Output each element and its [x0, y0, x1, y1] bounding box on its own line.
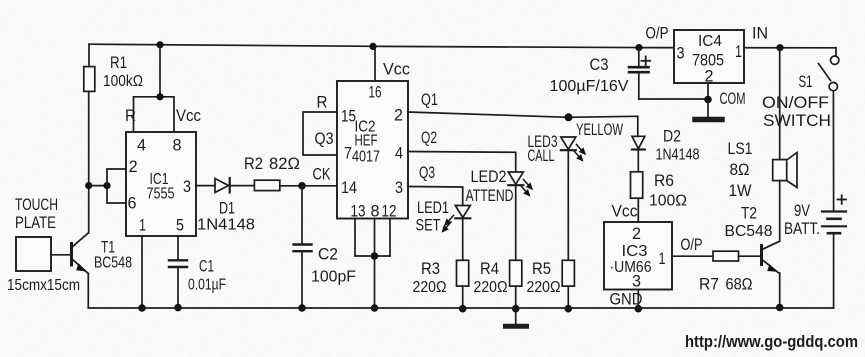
svg-text:R: R: [317, 93, 328, 112]
svg-text:R7: R7: [699, 275, 719, 294]
svg-text:ON/OFF: ON/OFF: [762, 93, 829, 112]
wire IC1 pin3 to D1: [196, 185, 215, 187]
resistor R3 220ohm: [413, 259, 469, 296]
wire top supply rail: [89, 44, 836, 48]
svg-text:100kΩ: 100kΩ: [103, 73, 143, 90]
svg-text:HEF: HEF: [355, 133, 378, 150]
svg-text:2: 2: [129, 157, 138, 176]
svg-text:D2: D2: [663, 127, 681, 146]
node dot T2 emitter ground: [776, 304, 784, 312]
capacitor C2: [294, 186, 357, 308]
svg-text:3: 3: [395, 178, 403, 197]
svg-text:1: 1: [735, 42, 742, 61]
wire IC1 pins 4-8 bracket: [134, 97, 175, 132]
svg-text:SET: SET: [416, 216, 441, 235]
svg-text:TOUCH: TOUCH: [15, 195, 58, 214]
svg-text:3: 3: [677, 44, 685, 63]
wire LED2 to R4: [515, 185, 517, 260]
svg-text:220Ω: 220Ω: [413, 279, 447, 296]
svg-text:1N4148: 1N4148: [197, 217, 255, 234]
svg-text:YELLOW: YELLOW: [576, 120, 623, 139]
svg-text:0.01µF: 0.01µF: [188, 277, 226, 294]
svg-text:220Ω: 220Ω: [527, 279, 561, 296]
wire IC1 pins 2-6 bracket: [107, 169, 126, 203]
svg-text:12: 12: [382, 202, 397, 221]
svg-text:2: 2: [394, 106, 403, 125]
svg-text:R1: R1: [110, 53, 127, 72]
wire T2 emitter to ground rail: [779, 273, 781, 308]
LED3 CALL: [528, 120, 624, 165]
capacitor C1: [169, 257, 226, 309]
speaker LS1: [728, 139, 798, 200]
wire R4 to ground rail: [515, 286, 517, 309]
wire R7 to T2 base: [739, 255, 761, 257]
svg-text:IC4: IC4: [698, 33, 722, 50]
svg-text:15cmx15cm: 15cmx15cm: [7, 277, 80, 294]
node junction dot IN / speaker branch: [776, 44, 783, 51]
svg-text:R2: R2: [244, 154, 263, 173]
svg-text:R4: R4: [480, 259, 499, 278]
node dot R3 ground: [459, 305, 467, 313]
svg-text:·UM66: ·UM66: [610, 259, 652, 276]
wire Vcc drop to IC1 pins 4-8 bracket: [159, 45, 161, 97]
wire R1 bottom to T1 collector: [88, 91, 90, 233]
op-amp U1 timer IC1 7555 box: [125, 106, 201, 236]
svg-text:LS1: LS1: [728, 139, 753, 158]
wire collector node to IC1 pin2/6 bracket: [89, 185, 107, 187]
svg-text:Q3: Q3: [419, 163, 435, 182]
svg-text:4: 4: [395, 144, 403, 163]
svg-text:Q3: Q3: [315, 129, 334, 148]
wire R6 to IC3 pin2: [637, 198, 639, 222]
svg-text:68Ω: 68Ω: [726, 275, 753, 294]
svg-text:4: 4: [137, 136, 146, 155]
wire touch plate to T1 base: [51, 254, 71, 256]
wire Q3 output: [408, 163, 463, 205]
node junction dot IC2 Vcc branch: [369, 43, 376, 50]
svg-text:13: 13: [351, 202, 366, 221]
node junction dot C3 branch: [635, 44, 642, 51]
wire speaker to T2 collector: [779, 181, 781, 242]
node junction dot top of R1 branch: [156, 41, 163, 48]
wire D2 to R6: [637, 150, 639, 172]
node dot pin8 join: [371, 252, 379, 260]
diode D2 1N4148: [632, 127, 700, 164]
wire IN node down to speaker: [779, 48, 781, 160]
svg-text:9V: 9V: [794, 201, 811, 220]
svg-text:1: 1: [659, 249, 666, 268]
wire IC1 pin5 to C1: [177, 236, 179, 260]
svg-text:1W: 1W: [729, 181, 752, 200]
svg-text:220Ω: 220Ω: [474, 279, 508, 296]
svg-text:BC548: BC548: [725, 223, 773, 240]
resistor R1: [84, 44, 143, 91]
node dot R5 ground: [565, 305, 573, 313]
node dot on collector wire: [85, 182, 92, 189]
svg-text:R: R: [125, 106, 136, 125]
node dot C2 ground: [298, 304, 306, 312]
wire IC2 Vcc drop: [374, 46, 376, 81]
node dot C1 ground: [174, 304, 182, 312]
svg-text:O/P: O/P: [681, 235, 703, 254]
svg-text:C3: C3: [590, 55, 609, 74]
node dot Q1 to LED3: [565, 113, 573, 121]
svg-text:LED2: LED2: [471, 167, 507, 186]
node dot R4 ground: [512, 305, 520, 313]
svg-text:6: 6: [128, 194, 137, 213]
wire battery negative to ground rail: [833, 233, 835, 308]
svg-text:BC548: BC548: [94, 255, 132, 272]
resistor R2 82ohm: [244, 154, 300, 191]
switch S1: [762, 48, 839, 130]
op-amp U2 counter IC2 HEF4017 box: [337, 60, 410, 221]
resistor R4 220ohm: [474, 259, 522, 296]
node dot on pin2/6 bracket: [103, 182, 110, 189]
node dot CK junction: [298, 182, 306, 190]
svg-text:7: 7: [344, 144, 352, 163]
svg-text:O/P: O/P: [646, 24, 669, 43]
svg-text:82Ω: 82Ω: [269, 154, 300, 173]
LED2 ATTEND: [466, 167, 532, 205]
wire IC3 pin1 O/P to R7: [672, 235, 713, 256]
svg-text:1: 1: [139, 216, 146, 235]
wire T1 emitter to ground rail: [87, 274, 89, 309]
svg-text:T2: T2: [741, 204, 757, 223]
wire CK node to IC2 pin14: [302, 185, 337, 187]
svg-text:Vcc: Vcc: [383, 60, 410, 79]
svg-text:C1: C1: [199, 257, 214, 276]
svg-text:http://www.go-gddq.com: http://www.go-gddq.com: [685, 333, 858, 351]
svg-text:5: 5: [176, 216, 184, 235]
op-amp U4 regulator IC4 7805 box: [646, 24, 769, 86]
diode D1 1N4148: [197, 178, 255, 234]
wire LED1 to R3: [462, 218, 464, 260]
transistor T2 BC548: [725, 204, 780, 274]
svg-text:CK: CK: [313, 165, 331, 184]
svg-text:100Ω: 100Ω: [649, 193, 687, 210]
wire bottom ground rail: [89, 307, 834, 309]
svg-text:Q1: Q1: [421, 90, 438, 109]
svg-text:R3: R3: [421, 259, 440, 278]
capacitor C3: [550, 48, 709, 99]
svg-text:16: 16: [369, 83, 382, 102]
resistor R6 100ohm: [631, 171, 688, 210]
ground symbol COM: [695, 117, 722, 123]
node dot pin1 ground: [138, 304, 146, 312]
wire S1 to battery: [832, 91, 834, 211]
wire D1 to R2: [230, 185, 255, 187]
svg-text:IC3: IC3: [622, 243, 648, 260]
svg-text:100µF/16V: 100µF/16V: [550, 78, 629, 95]
svg-text:R6: R6: [654, 171, 674, 190]
svg-text:1N4148: 1N4148: [656, 147, 700, 164]
svg-text:PLATE: PLATE: [15, 213, 56, 232]
svg-text:C2: C2: [318, 245, 338, 264]
svg-text:100pF: 100pF: [311, 269, 356, 286]
wire R2 to CK node: [280, 185, 302, 187]
wire IC3 pin3 to ground rail: [637, 290, 639, 309]
wire IC1 pin1 to ground rail: [141, 236, 143, 308]
svg-text:R5: R5: [532, 259, 551, 278]
svg-text:CALL: CALL: [528, 146, 555, 165]
svg-text:D1: D1: [219, 199, 235, 218]
svg-text:2: 2: [632, 224, 641, 243]
svg-text:2: 2: [705, 67, 714, 86]
svg-text:14: 14: [341, 178, 357, 197]
svg-text:SWITCH: SWITCH: [763, 111, 831, 130]
svg-text:COM: COM: [720, 89, 746, 108]
node dot on 4-8 bracket: [156, 93, 163, 100]
svg-text:LED1: LED1: [417, 198, 449, 217]
ground symbol below R4: [506, 309, 527, 327]
touch plate electrode: [7, 195, 80, 294]
svg-text:3: 3: [632, 272, 641, 291]
wire R5 to ground rail: [567, 286, 569, 309]
wire Q1 output: [408, 90, 638, 136]
wire IC2 pin13 pin8 pin12 to ground: [355, 219, 390, 309]
battery 9V: [784, 195, 846, 238]
wire Q2 output: [408, 128, 516, 172]
svg-text:3: 3: [183, 177, 191, 196]
node CK label: [313, 165, 331, 184]
wire LED3 to R5: [567, 150, 569, 260]
svg-text:4017: 4017: [352, 149, 380, 166]
resistor R5 220ohm: [527, 259, 575, 296]
watermark go-gddq.com: [685, 333, 858, 351]
svg-text:Vcc: Vcc: [176, 106, 201, 125]
svg-text:Vcc: Vcc: [612, 202, 638, 221]
svg-text:8: 8: [173, 136, 182, 155]
node dot IC2 ground: [371, 304, 379, 312]
wire IC4 pin2 COM to ground: [708, 83, 746, 117]
transistor T1 BC548: [72, 233, 133, 274]
resistor R7 68ohm: [699, 251, 753, 293]
op-amp U3 melody IC3 UM66 box: [604, 202, 672, 309]
wire R3 to ground rail: [462, 286, 464, 309]
LED1 SET: [416, 198, 471, 235]
svg-text:BATT.: BATT.: [784, 219, 820, 238]
svg-text:7555: 7555: [147, 186, 175, 203]
node dot IC3 ground: [635, 305, 643, 313]
wire IC2 reset bracket pin15 to pin7: [303, 93, 337, 156]
node dot COM: [704, 96, 712, 104]
svg-text:S1: S1: [799, 72, 813, 91]
svg-text:IN: IN: [752, 24, 768, 43]
svg-text:8Ω: 8Ω: [730, 160, 750, 179]
svg-text:Q2: Q2: [421, 128, 437, 147]
svg-text:ATTEND: ATTEND: [466, 186, 514, 205]
